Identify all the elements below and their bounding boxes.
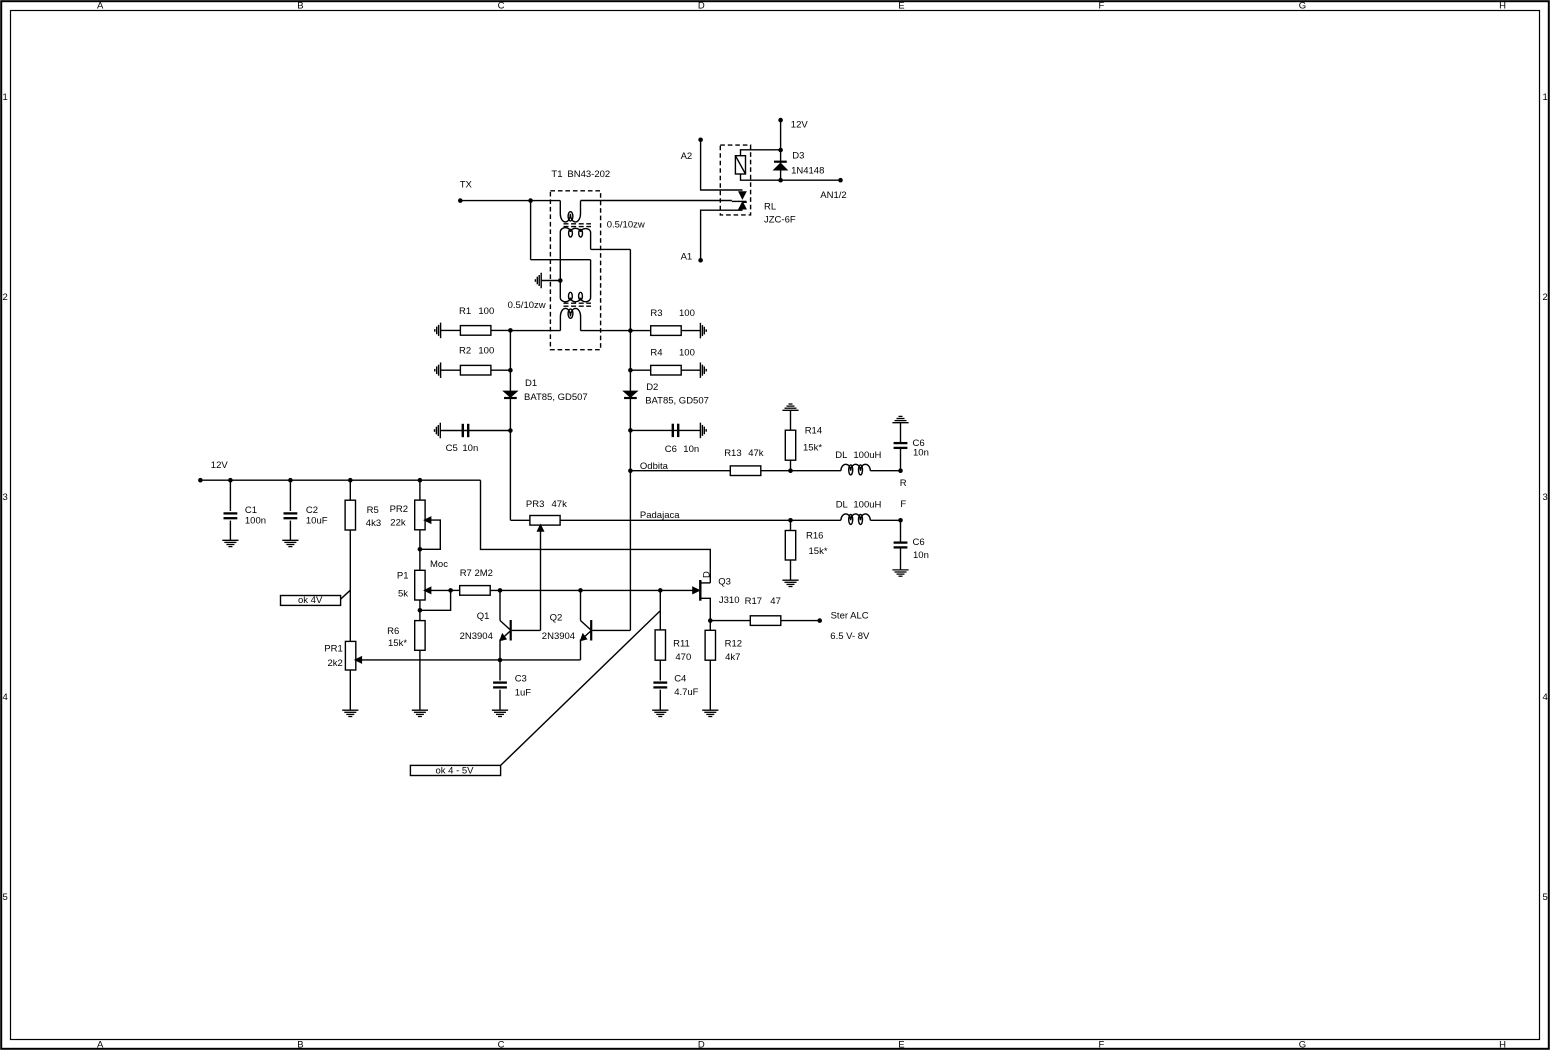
transformer T1 lower core [564, 302, 592, 304]
potentiometer PR3 47k [530, 516, 560, 526]
ground C6 top right [892, 422, 908, 424]
wire T1 secondary to right node [591, 248, 631, 250]
transistor Q3 J310 [699, 580, 701, 601]
svg-text:R12: R12 [725, 638, 742, 649]
svg-text:D2: D2 [646, 382, 658, 393]
node Q3 source junction [708, 618, 713, 623]
svg-text:BAT85, GD507: BAT85, GD507 [645, 396, 709, 407]
svg-text:15k*: 15k* [388, 638, 407, 649]
svg-text:A2: A2 [681, 151, 693, 162]
svg-text:F: F [900, 499, 906, 510]
wire DL to R node [870, 470, 900, 472]
resistor R13 47k [730, 466, 761, 476]
svg-text:6.5 V- 8V: 6.5 V- 8V [830, 631, 870, 642]
node P1 bottom junction [418, 608, 423, 613]
node Ster ALC terminal [817, 618, 822, 623]
resistor R5 4k3 [349, 480, 351, 500]
svg-text:5k: 5k [398, 589, 408, 600]
svg-text:1uF: 1uF [515, 687, 532, 698]
transistor Q1 2N3904 [499, 590, 501, 620]
svg-text:G: G [1299, 1039, 1306, 1050]
svg-text:B: B [297, 1039, 303, 1050]
node C6 junction [628, 428, 633, 433]
resistor R11 470 [659, 590, 661, 630]
wire R12 to ground [709, 660, 711, 710]
capacitor C6 10n top right [900, 448, 902, 471]
svg-text:0.5/10zw: 0.5/10zw [607, 220, 645, 231]
node Moc junction [418, 547, 423, 552]
callout ok 4 - 5V [410, 765, 500, 775]
svg-text:Q1: Q1 [477, 611, 490, 622]
node 12V left terminal [198, 478, 203, 483]
svg-text:100uH: 100uH [853, 499, 881, 510]
ground C4 [652, 709, 668, 711]
svg-text:JZC-6F: JZC-6F [764, 215, 796, 226]
wire 12V to relay [780, 120, 782, 150]
wire T1 to R3 node [581, 330, 631, 332]
wire Q2 base [592, 629, 630, 631]
wire R13 to R14 [761, 470, 841, 472]
svg-text:D1: D1 [525, 378, 537, 389]
ground R14 top [782, 409, 798, 411]
ground R6 [412, 709, 428, 711]
ground R16 [782, 579, 798, 581]
resistor R7 2M2 [451, 589, 460, 591]
wire A1 to contact [701, 210, 743, 260]
svg-text:G: G [1299, 0, 1306, 11]
svg-text:DL: DL [835, 450, 847, 461]
svg-text:C: C [498, 1039, 505, 1050]
ground R3 [699, 323, 701, 339]
resistor R12 4k7 [709, 621, 711, 631]
transformer T1 upper primary winding [560, 201, 580, 222]
ground C2 [282, 539, 298, 541]
svg-text:BN43-202: BN43-202 [567, 169, 610, 180]
svg-text:Q3: Q3 [718, 577, 731, 588]
svg-text:E: E [898, 0, 904, 11]
node Odbita junction [628, 468, 633, 473]
svg-text:R11: R11 [673, 639, 690, 650]
wire P1 bottom to wiper [419, 600, 421, 621]
svg-text:D: D [698, 1039, 705, 1050]
svg-text:PR1: PR1 [324, 643, 342, 654]
node TX terminal [458, 198, 463, 203]
svg-text:15k*: 15k* [809, 546, 828, 557]
svg-text:15k*: 15k* [803, 443, 822, 454]
svg-text:2N3904: 2N3904 [542, 631, 575, 642]
callout ok 4V [281, 596, 341, 606]
svg-text:R14: R14 [805, 426, 822, 437]
ground R12 [702, 709, 718, 711]
svg-text:4k3: 4k3 [366, 518, 381, 529]
node R11 junction [658, 588, 663, 593]
resistor R14 15k [790, 410, 792, 430]
node AN1/2 terminal [838, 178, 843, 183]
node C5 junction [508, 428, 513, 433]
svg-text:DL: DL [836, 499, 848, 510]
resistor R3 100 [630, 330, 700, 332]
wire detector right vertical [629, 249, 631, 630]
svg-text:100: 100 [679, 348, 695, 359]
svg-text:0.5/10zw: 0.5/10zw [508, 300, 546, 311]
svg-text:10n: 10n [683, 444, 699, 455]
wire A2 to contact [701, 140, 743, 190]
svg-text:1: 1 [1543, 92, 1548, 103]
transistor Q2 2N3904 [580, 590, 582, 620]
svg-text:10n: 10n [913, 550, 929, 561]
node R5 junction [348, 478, 353, 483]
wire relay coil bottom [741, 174, 781, 180]
svg-text:J310: J310 [719, 595, 740, 606]
node R2 junction [508, 368, 513, 373]
svg-text:3: 3 [3, 492, 8, 503]
transformer T1 dashed box [550, 191, 600, 350]
svg-text:ok 4V: ok 4V [298, 595, 323, 606]
svg-text:C3: C3 [515, 673, 527, 684]
wire PR3 wiper to Q1 base [512, 629, 541, 631]
resistor R2 100 [441, 369, 511, 371]
svg-text:D3: D3 [792, 151, 804, 162]
resistor R17 47 [710, 620, 750, 622]
node C2 junction [288, 478, 293, 483]
svg-text:5: 5 [1543, 892, 1548, 903]
svg-text:AN1/2: AN1/2 [820, 190, 846, 201]
node TX junction [528, 198, 533, 203]
potentiometer P1 5k [415, 570, 425, 600]
svg-text:Ster ALC: Ster ALC [831, 611, 869, 622]
svg-text:47: 47 [770, 596, 781, 607]
svg-text:12V: 12V [211, 460, 229, 471]
svg-text:D: D [698, 0, 705, 11]
svg-text:R7 2M2: R7 2M2 [460, 568, 493, 579]
wire DL to F node [870, 519, 900, 521]
diode D1 BAT85 [504, 391, 517, 397]
svg-text:TX: TX [460, 180, 473, 191]
svg-text:1N4148: 1N4148 [791, 166, 824, 177]
svg-text:2: 2 [1543, 292, 1548, 303]
wire TX junction to T1 primary [531, 200, 561, 202]
svg-text:R13: R13 [724, 448, 741, 459]
node R14 junction [788, 468, 793, 473]
relay moving contact [732, 200, 747, 202]
svg-text:3: 3 [1543, 492, 1548, 503]
wire detector left vertical [509, 330, 511, 520]
svg-text:10n: 10n [462, 443, 478, 454]
svg-text:2N3904: 2N3904 [460, 631, 493, 642]
svg-text:R4: R4 [650, 348, 662, 359]
resistor R4 100 [630, 369, 700, 371]
svg-text:PR2: PR2 [390, 504, 408, 515]
wire T1 primary to relay common [581, 200, 732, 202]
wire to AN1/2 [781, 179, 841, 181]
svg-text:Moc: Moc [430, 559, 448, 570]
ground R2 [440, 362, 442, 378]
resistor R16 15k [790, 520, 792, 530]
wire Odbita [630, 470, 730, 472]
ground C6 bottom right [892, 569, 908, 571]
capacitor C4 4.7uF [659, 660, 661, 680]
relay coil [735, 156, 745, 174]
svg-text:R2: R2 [459, 346, 471, 357]
svg-text:C4: C4 [674, 673, 686, 684]
diode D2 BAT85 [624, 391, 637, 397]
node PR2 junction [418, 478, 423, 483]
svg-text:RL: RL [764, 201, 776, 212]
node relay bottom junction [778, 178, 783, 183]
node A2 terminal [698, 138, 703, 143]
node R3 junction [628, 328, 633, 333]
svg-text:BAT85, GD507: BAT85, GD507 [524, 392, 588, 403]
wire Padajaca [560, 519, 841, 521]
svg-text:2: 2 [3, 292, 8, 303]
node R4 junction [628, 368, 633, 373]
relay contact lower arrow [739, 202, 746, 208]
potentiometer P1 wiper [425, 588, 431, 594]
ground R4 [699, 362, 701, 378]
svg-text:12V: 12V [791, 120, 809, 131]
potentiometer PR1 wiper [355, 657, 361, 663]
node Q1 collector junction [498, 588, 503, 593]
node 12V relay terminal [778, 118, 783, 123]
svg-text:B: B [297, 0, 303, 11]
svg-text:R5: R5 [367, 505, 379, 516]
svg-text:Padajaca: Padajaca [640, 510, 680, 521]
node transformer center tap [558, 278, 563, 283]
svg-text:A: A [97, 0, 104, 11]
transistor Q3 gate arrow [693, 587, 699, 593]
wire relay coil top [741, 150, 781, 156]
svg-text:P1: P1 [397, 570, 409, 581]
svg-text:C: C [498, 0, 505, 11]
svg-text:T1: T1 [551, 169, 562, 180]
svg-text:470: 470 [675, 652, 691, 663]
wire TX to T1 [460, 200, 530, 202]
svg-text:100uH: 100uH [853, 450, 881, 461]
svg-text:H: H [1499, 0, 1506, 11]
svg-text:ok 4 - 5V: ok 4 - 5V [436, 765, 475, 776]
svg-text:Q2: Q2 [550, 613, 563, 624]
wire 12V rail [200, 479, 480, 481]
potentiometer PR2 wiper [425, 517, 431, 523]
svg-text:22k: 22k [390, 518, 406, 529]
wire PR2 to P1 [419, 530, 421, 571]
wire PR3 left lead [510, 519, 530, 521]
svg-text:100: 100 [478, 346, 494, 357]
resistor R6 15k [415, 621, 425, 651]
svg-text:C5: C5 [446, 443, 458, 454]
node C1 junction [228, 478, 233, 483]
capacitor C5 10n [440, 430, 510, 432]
svg-text:47k: 47k [748, 448, 764, 459]
svg-text:5: 5 [3, 892, 8, 903]
transformer T1 lower secondary winding [560, 308, 580, 330]
node R1 junction [508, 328, 513, 333]
wire R17 to Ster ALC [781, 620, 820, 622]
svg-text:4: 4 [3, 692, 8, 703]
svg-text:R3: R3 [650, 308, 662, 319]
capacitor C1 100n [229, 480, 231, 511]
inductor DL 100uH lower [841, 514, 870, 520]
svg-text:F: F [1099, 0, 1105, 11]
svg-text:4: 4 [1543, 692, 1548, 703]
svg-text:H: H [1499, 1039, 1506, 1050]
transformer T1 upper core [564, 223, 592, 225]
node A1 terminal [698, 258, 703, 263]
transformer T1 lower upper winding [560, 260, 590, 302]
svg-text:C1: C1 [245, 505, 257, 516]
svg-text:R17: R17 [745, 596, 762, 607]
svg-text:PR3: PR3 [526, 499, 544, 510]
svg-text:4.7uF: 4.7uF [674, 687, 698, 698]
potentiometer PR3 wiper [538, 525, 544, 531]
svg-text:100: 100 [679, 308, 695, 319]
potentiometer PR2 22k [419, 480, 421, 500]
node R7 left junction [448, 588, 453, 593]
svg-text:R6: R6 [387, 626, 399, 637]
wire R6 to ground [419, 650, 421, 710]
ground PR1 [342, 709, 358, 711]
ground C1 [222, 539, 238, 541]
svg-text:C6: C6 [913, 537, 925, 548]
diode D3 1N4148 [780, 150, 782, 180]
svg-text:E: E [898, 1039, 904, 1050]
svg-text:100n: 100n [245, 515, 266, 526]
node F output [898, 518, 903, 523]
svg-text:R16: R16 [806, 531, 823, 542]
ground C6 [699, 423, 701, 439]
svg-text:4k7: 4k7 [725, 652, 740, 663]
svg-text:47k: 47k [552, 499, 568, 510]
wire R5 to PR1 [349, 530, 351, 641]
node relay top junction [778, 148, 783, 153]
ground C5 [439, 423, 441, 439]
capacitor C6 10n right [630, 429, 700, 431]
svg-text:C6: C6 [665, 444, 677, 455]
svg-text:R: R [900, 478, 907, 489]
relay contact upper arrow [739, 192, 746, 198]
wire TX drop to T1 lower winding [530, 201, 532, 260]
capacitor C3 1uF [499, 660, 501, 681]
capacitor C6 10n bottom right [900, 520, 902, 542]
wire 12V rail to Q3 drain [481, 480, 711, 583]
svg-text:10n: 10n [913, 447, 929, 458]
svg-text:A: A [97, 1039, 104, 1050]
ground transformer center tap [540, 273, 542, 289]
node R16 junction [788, 518, 793, 523]
wire emitter line [355, 659, 580, 661]
svg-text:A1: A1 [681, 252, 693, 263]
svg-text:R1: R1 [459, 306, 471, 317]
svg-text:F: F [1099, 1039, 1105, 1050]
svg-text:D: D [702, 571, 713, 578]
ground R1 [440, 323, 442, 339]
relay RL dashed box [720, 145, 750, 215]
resistor R1 100 [441, 329, 511, 331]
svg-text:2k2: 2k2 [328, 658, 343, 669]
wire gate line [490, 589, 693, 591]
inductor DL 100uH upper [841, 464, 870, 470]
potentiometer PR1 2k2 [345, 641, 355, 670]
svg-text:100: 100 [478, 306, 494, 317]
node R output [898, 468, 903, 473]
node C3 junction [498, 658, 503, 663]
wire R1 node to T1 [510, 330, 560, 332]
svg-text:1: 1 [3, 92, 8, 103]
ground C3 [492, 709, 508, 711]
svg-text:C2: C2 [306, 505, 318, 516]
svg-text:10uF: 10uF [306, 515, 328, 526]
wire PR1 to ground [349, 670, 351, 710]
transformer T1 upper secondary winding [560, 228, 590, 281]
capacitor C2 10uF [289, 480, 291, 511]
node Q2 collector junction [578, 588, 583, 593]
